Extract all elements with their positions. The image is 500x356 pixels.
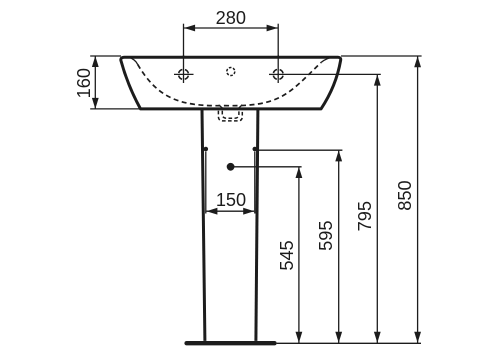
svg-text:545: 545 [277, 240, 297, 270]
dimension 795 line [374, 75, 381, 343]
dimension 160 line [92, 56, 99, 109]
svg-text:595: 595 [316, 221, 336, 251]
dimension 545 extension line [233, 166, 302, 168]
dimension 850 extension line [341, 55, 422, 57]
drain outlet funnel [219, 105, 243, 109]
dimension 545 line [296, 167, 303, 343]
fixing hole right [253, 147, 258, 152]
floor line [277, 342, 421, 344]
dimension 280 extension line left [183, 24, 185, 56]
dimension 160 extension top [90, 55, 121, 57]
waste drain dashed outline outer [218, 111, 242, 121]
washbasin outline [121, 57, 341, 109]
tap hole right [269, 55, 283, 83]
svg-text:160: 160 [74, 68, 94, 98]
svg-text:280: 280 [216, 8, 246, 28]
dimension 160 extension bottom [90, 108, 140, 110]
dimension 795 extension line [278, 73, 381, 75]
base plate [187, 341, 275, 345]
basin bowl dashed curve [138, 63, 321, 106]
waste drain dashed outline inner [222, 111, 239, 118]
dimension 150 extension left [205, 152, 207, 214]
overflow hole [227, 68, 235, 76]
dimension 595 line [335, 150, 342, 343]
drain bolt center point [227, 163, 235, 171]
fixing hole left [204, 147, 209, 152]
dimension 150 line [206, 208, 254, 215]
svg-text:150: 150 [216, 190, 246, 210]
svg-text:795: 795 [355, 201, 375, 231]
dimension 850 line [414, 56, 421, 343]
dimension 150 extension right [254, 152, 256, 214]
pedestal left edge [202, 110, 205, 341]
pedestal right edge [256, 110, 258, 341]
dimension 280 extension line right [277, 24, 279, 56]
tap hole left [174, 55, 194, 83]
basin inner rim left corner [129, 57, 138, 64]
dimension 280 line [184, 25, 278, 32]
svg-text:850: 850 [395, 180, 415, 210]
dimension 595 extension line [257, 149, 342, 151]
basin inner rim right corner [321, 57, 333, 62]
